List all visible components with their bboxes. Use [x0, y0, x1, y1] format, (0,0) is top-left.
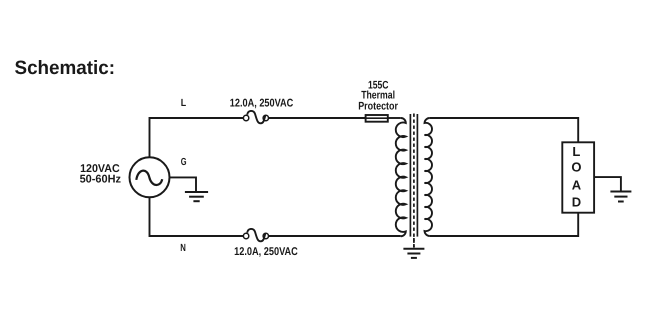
transformer T1 primary winding — [396, 118, 406, 236]
transformer T1 secondary winding — [425, 118, 433, 236]
label TP1 "155C Thermal Protector" — [358, 80, 398, 113]
svg-text:L: L — [572, 144, 580, 159]
svg-text:50-60Hz: 50-60Hz — [80, 173, 122, 185]
wire: fuse F1 to thermal protector TP1 — [268, 117, 365, 119]
transformer T1 core — [410, 114, 417, 248]
label load "L O A D" — [571, 144, 581, 210]
svg-text:Schematic:: Schematic: — [15, 58, 116, 79]
svg-text:L: L — [181, 98, 186, 109]
label V1 value "120VAC 50-60Hz" — [80, 163, 122, 186]
ground: earth at load — [610, 192, 631, 202]
svg-text:12.0A, 250VAC: 12.0A, 250VAC — [230, 97, 293, 109]
wire: T1 secondary top to load — [430, 118, 578, 142]
load LD1 box — [562, 142, 594, 212]
svg-text:N: N — [180, 243, 186, 254]
wire: TP1 to transformer T1 primary — [388, 117, 401, 119]
fuse F1 — [243, 111, 268, 123]
svg-text:12.0A, 250VAC: 12.0A, 250VAC — [234, 246, 298, 258]
svg-text:D: D — [572, 195, 581, 210]
ground: earth at G — [185, 192, 208, 201]
svg-text:G: G — [181, 157, 187, 168]
wire: V1 to ground (node G) — [169, 177, 196, 191]
svg-text:Protector: Protector — [358, 101, 398, 113]
wire: load to earth — [594, 177, 621, 190]
fuse F2 — [243, 229, 268, 241]
voltage source V1 — [130, 157, 170, 197]
svg-text:A: A — [572, 178, 582, 193]
wire: fuse F2 to T1 primary bottom — [268, 235, 401, 237]
wire: load bottom to T1 secondary bottom — [430, 213, 578, 236]
ground: earth at T1 core — [403, 249, 424, 258]
wire: T1 core to earth (dashed stem) — [413, 238, 415, 248]
wire: V1 bottom lead to fuse F2 (node N) — [150, 197, 244, 236]
wire: V1 top lead to fuse F1 (node L) — [150, 118, 244, 158]
thermal protector TP1 — [366, 115, 388, 122]
svg-text:O: O — [571, 160, 581, 175]
